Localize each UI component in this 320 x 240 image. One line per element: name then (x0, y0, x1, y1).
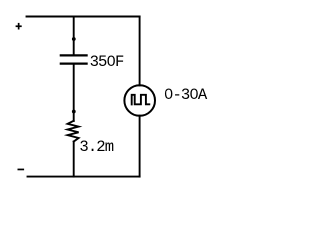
svg-text:350F: 350F (90, 53, 124, 71)
svg-text:0-30A: 0-30A (164, 86, 208, 104)
svg-text:3.2m: 3.2m (79, 138, 113, 156)
